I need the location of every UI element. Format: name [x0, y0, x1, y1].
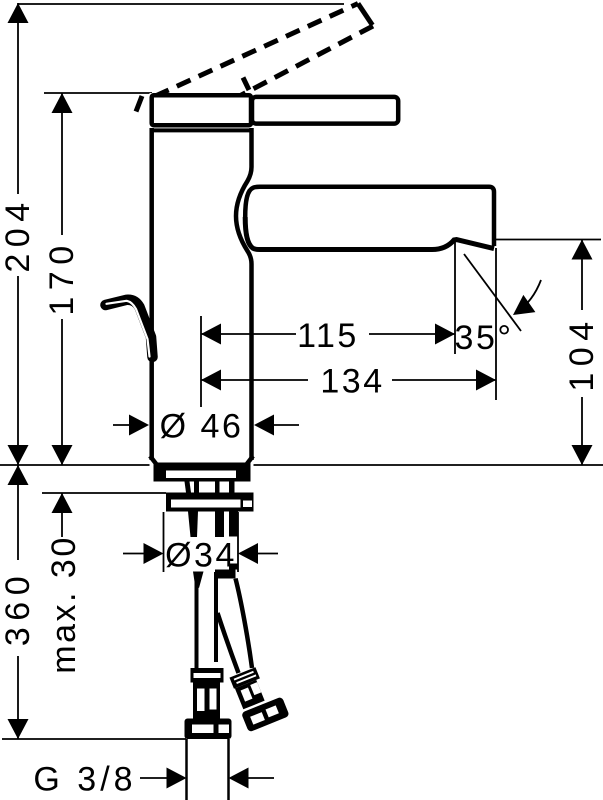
angled hose fitting — [227, 662, 290, 732]
svg-text:35°: 35° — [455, 319, 514, 357]
angled hose right edge — [236, 579, 253, 669]
supply hose vertical right edge — [214, 572, 218, 662]
wire deck / mounting surface line — [0, 464, 603, 466]
wire spout outlet reference line — [494, 239, 601, 241]
body white fill — [150, 93, 254, 468]
pop-up rod lever hook — [106, 300, 153, 357]
node extension line at spout tip (134) — [495, 248, 497, 400]
body base band — [154, 463, 251, 482]
svg-text:max. 30: max. 30 — [45, 535, 83, 673]
vertical hose fitting collar — [191, 668, 224, 683]
G3/8 connector tube right edge — [227, 739, 230, 800]
body bottom bevel left — [150, 456, 157, 465]
body right edge with spout junction bulge — [236, 128, 252, 460]
mounting flange — [166, 493, 254, 512]
spout junction inner curve upper + spout top edge + spout end face — [245, 187, 494, 246]
wire hose end reference line — [2, 738, 186, 740]
base collar white stripe — [166, 471, 236, 479]
G3/8 connector tube left edge — [185, 739, 188, 800]
wire max30 underside line — [42, 492, 166, 494]
threaded shank rods — [188, 512, 238, 570]
dimension 170 — [43, 93, 81, 465]
svg-text:115: 115 — [297, 317, 359, 355]
body top edge — [150, 128, 253, 132]
wire top reference line (204 top extension) — [18, 3, 344, 5]
node extension line at aerator (115) — [454, 242, 456, 354]
svg-text:360: 360 — [0, 570, 37, 646]
svg-text:G 3/8: G 3/8 — [33, 761, 136, 799]
pull rod lower wedge — [193, 572, 204, 589]
svg-text:104: 104 — [563, 315, 601, 391]
dimension 360 — [0, 465, 37, 739]
node extension line at tap centre (115/134) — [200, 316, 202, 407]
dimension 204 — [0, 3, 37, 465]
dimension 35 degree jet angle — [455, 254, 541, 357]
vertical hose fitting nut — [193, 683, 220, 721]
lever handle raised position (dashed) — [136, 4, 373, 112]
svg-text:134: 134 — [320, 363, 384, 401]
handle block — [152, 95, 251, 125]
dimension 134 — [201, 363, 496, 401]
dimension max. 30 — [45, 493, 83, 674]
wire 170 top extension line — [44, 92, 152, 94]
body left edge — [149, 128, 154, 460]
supply hose vertical left edge — [195, 578, 199, 670]
angled hose top cap — [215, 570, 236, 579]
cartridge stubs under base — [185, 482, 235, 493]
svg-text:Ø 46: Ø 46 — [160, 408, 244, 446]
dimension 104 — [563, 240, 601, 466]
svg-text:Ø34: Ø34 — [165, 537, 237, 575]
dimension 115 — [201, 317, 455, 355]
lever arm — [252, 97, 398, 124]
dimension diameter 34 — [123, 512, 278, 575]
vertical hose fitting end cap — [185, 719, 232, 740]
dimension G 3/8 — [33, 761, 274, 799]
svg-text:204: 204 — [0, 196, 37, 272]
svg-text:170: 170 — [43, 239, 81, 315]
spout junction inner curve lower + spout bottom edge with aerator — [245, 217, 494, 250]
angled hose left edge — [218, 613, 239, 673]
dimension diameter 46 — [113, 408, 299, 446]
body bottom bevel right — [246, 456, 253, 465]
